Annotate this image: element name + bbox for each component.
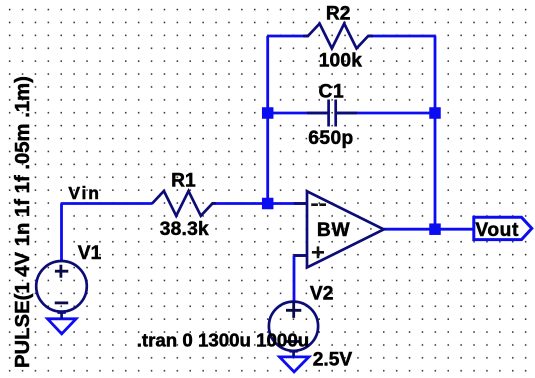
svg-text:2.5V: 2.5V <box>313 350 353 371</box>
svg-text:PULSE(1 4V 1n 1f 1f .05m .1m): PULSE(1 4V 1n 1f 1f .05m .1m) <box>12 76 34 368</box>
svg-text:100k: 100k <box>319 51 363 72</box>
svg-text:R1: R1 <box>171 170 196 191</box>
svg-text:V2: V2 <box>310 284 333 305</box>
svg-text:.tran 0 1300u 1000u: .tran 0 1300u 1000u <box>137 329 309 350</box>
svg-text:R2: R2 <box>326 4 351 25</box>
svg-text:BW: BW <box>317 220 351 241</box>
svg-text:C1: C1 <box>319 82 345 103</box>
svg-text:Vin: Vin <box>68 183 100 203</box>
svg-text:38.3k: 38.3k <box>160 219 209 240</box>
svg-text:Vout: Vout <box>475 220 519 241</box>
svg-text:V1: V1 <box>78 243 102 264</box>
svg-text:650p: 650p <box>308 128 353 149</box>
